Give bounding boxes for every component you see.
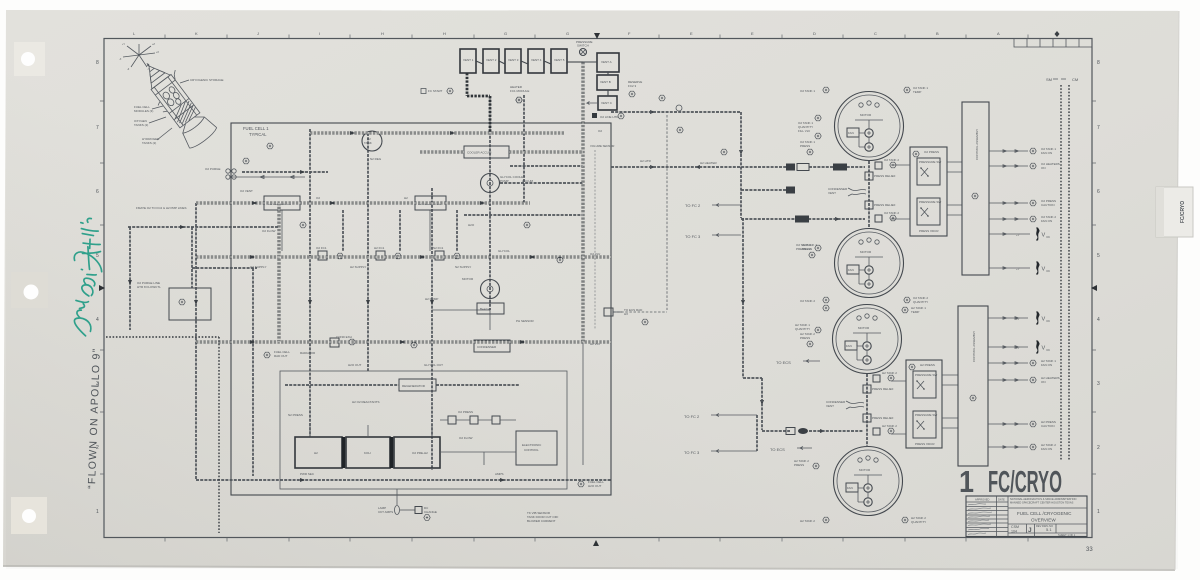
H2 tank 2 hex bottom left [800,517,829,523]
distribution pipe top y112 [611,111,741,113]
svg-text:FC/CRYO: FC/CRYO [988,464,1062,499]
valve row above power section [440,416,516,424]
hex glycol sensor [264,352,270,358]
svg-text:VENT: VENT [826,404,834,408]
hex pair near regen [330,338,355,347]
svg-text:6: 6 [96,189,99,195]
svg-text:ON: ON [1041,166,1046,170]
svg-text:104: 104 [1011,530,1017,534]
CSM label fuel cell modules [134,105,163,113]
title block signatures [968,504,992,535]
border tick marks [100,35,1096,542]
pipe left riser x130 [129,227,131,330]
hex mid module [516,97,522,103]
hex right of riser 2 [802,243,817,258]
inline filter dark y167 [833,164,847,171]
inline valve dark on y167 [786,164,795,171]
bottom legend lamp [378,506,437,521]
bottom TO ECS stub [770,447,812,453]
svg-text:6: 6 [1097,189,1100,195]
hole reinforcement patch middle [11,272,48,308]
pipe glycol vertical [489,98,491,310]
svg-text:MODULES (3): MODULES (3) [134,109,153,113]
bottom TO FC 2 stub [684,414,757,420]
svg-text:1: 1 [96,509,99,515]
valve circle on y112 [659,95,682,111]
svg-text:3: 3 [1097,381,1100,387]
pipe O2 vertical [431,188,433,470]
bottom riser x757 [756,415,758,451]
svg-text:O2: O2 [598,129,602,133]
svg-text:CONTROL ASSEMBLY: CONTROL ASSEMBLY [972,331,976,362]
svg-text:4: 4 [1097,317,1100,323]
control2 output row 2 V [988,341,1050,354]
svg-text:FAN ON: FAN ON [1041,447,1052,451]
svg-text:5: 5 [1097,253,1100,259]
svg-text:H2O OUT: H2O OUT [588,484,602,488]
zone labels left margin [96,60,99,515]
SM boundary dotted line [1060,85,1062,461]
svg-text:O2 FLOW: O2 FLOW [262,229,276,233]
svg-text:O2 TANK 1: O2 TANK 1 [800,89,815,93]
svg-text:CONTROL ASSEMBLY: CONTROL ASSEMBLY [975,129,979,160]
short link verticals regulator to mid row [343,210,457,251]
svg-text:TANKS (2): TANKS (2) [142,141,156,145]
svg-text:VENT A: VENT A [601,60,612,64]
svg-text:MOTOR: MOTOR [858,326,870,330]
svg-text:VENT C: VENT C [601,101,613,105]
CSM spacecraft drawing [133,52,219,150]
svg-text:PRESSURE SW: PRESSURE SW [919,160,941,164]
cooler accumulator box [464,146,509,158]
tank2 valve box + hex [875,158,899,169]
svg-text:O2: O2 [316,196,320,200]
svg-text:TO FC 3: TO FC 3 [684,450,700,455]
svg-text:+X: +X [156,51,159,54]
TO FC 3 stub upper [685,234,741,240]
pipe heavy vertical x583 [582,62,585,342]
H2 regulator box [415,196,446,210]
drawing border frame [104,39,1092,538]
svg-text:H2 PUMP: H2 PUMP [425,297,438,301]
H2 relief valve box 1 [863,385,871,393]
transducer2 wires to control [891,375,958,434]
svg-text:H: H [443,31,446,36]
svg-text:TYPICAL: TYPICAL [249,132,267,137]
svg-text:B: B [936,31,939,36]
svg-text:CAUTION: CAUTION [1041,203,1055,207]
svg-text:4: 4 [96,317,99,323]
pipe O2 supply top horizontal [310,132,565,135]
regenerator box [399,379,436,391]
svg-text:CAUTION: CAUTION [1041,424,1055,428]
svg-text:FAN: FAN [847,486,853,490]
O2 tank 1 hex top right [904,86,929,94]
control2 output row 5 [988,420,1056,428]
chain links [476,61,551,64]
H2 tank2 valve box + hex upper [873,371,897,382]
svg-text:FC1 MODULE: FC1 MODULE [510,89,529,93]
purge valve chain box 1 [460,49,476,73]
dotted SM boundary vertical [218,337,220,533]
svg-text:5: 5 [96,253,99,259]
zone letters top [133,31,1000,36]
svg-text:5.1: 5.1 [1046,527,1052,532]
svg-text:GLYCOL OUT: GLYCOL OUT [424,363,443,367]
H2 tank 1 hex right [902,306,926,314]
svg-text:VENT 1: VENT 1 [463,58,474,62]
TO FC 2 stub upper [685,203,741,208]
junction X valve [576,40,593,56]
H2 pump circle [462,277,500,299]
hex right of riser 3 [800,332,815,347]
svg-text:A: A [997,31,1000,36]
svg-text:2: 2 [1097,445,1100,451]
svg-text:MOTOR: MOTOR [859,468,871,472]
svg-text:O2 SUPPLY: O2 SUPPLY [250,265,266,269]
wire heavy vertical extension x583 [582,342,584,465]
svg-text:DATE: DATE [998,498,1005,502]
svg-text:TEMP: TEMP [911,310,919,314]
svg-text:PRESS: PRESS [800,336,810,340]
svg-text:C: C [874,31,877,36]
svg-text:TO FC 2: TO FC 2 [684,414,700,419]
svg-text:PRESS RELIEF: PRESS RELIEF [872,387,894,391]
distribution pipe y167 [611,166,790,168]
svg-text:QUANTITY: QUANTITY [913,300,928,304]
svg-text:H2 SUPPLY: H2 SUPPLY [350,265,366,269]
svg-text:O2 PRESS: O2 PRESS [924,150,939,154]
svg-text:REGENERATOR: REGENERATOR [402,384,426,388]
power plates H2 box [295,437,342,468]
svg-text:CSM: CSM [1011,525,1019,529]
pipe accum link y166 [510,165,583,167]
svg-text:CKT AMPS: CKT AMPS [378,510,393,514]
svg-text:D: D [813,31,816,36]
svg-text:FAN: FAN [848,268,854,272]
start legend left of chain [421,88,453,94]
valve box pair row3 [433,246,460,260]
control1 output row 1 [989,147,1056,155]
hex fc1 rad [642,319,648,325]
svg-text:I: I [319,31,320,36]
relief valve box 1 [865,172,873,180]
svg-text:H2: H2 [404,196,408,200]
power plates O2 box [394,437,440,468]
chain drop hatched [467,73,490,133]
svg-text:TO ECS: TO ECS [770,447,785,452]
hole reinforcement patch top [14,42,45,76]
control2 output row 3 [988,359,1056,367]
electronic control box [516,431,557,465]
control1 output row 5 V [989,228,1050,241]
svg-text:K: K [195,31,198,36]
H2 tank 1 [833,305,902,374]
vent to ecs rad label [604,308,643,316]
svg-text:⌐√: ⌐√ [1016,267,1020,271]
top centre marker [594,33,600,39]
svg-text:H2 HEATER: H2 HEATER [700,161,717,165]
punched hole top [21,52,35,66]
svg-text:SHEET 1 OF 1: SHEET 1 OF 1 [1058,533,1076,537]
right stack box 8 [598,96,617,110]
pipe reactant link y215 [464,214,583,216]
svg-text:N2 REG: N2 REG [370,157,382,161]
control2 output row 4 [988,376,1060,384]
O2 tank 2 [835,229,904,298]
svg-text:TO FC 3: TO FC 3 [685,234,701,239]
svg-text:PRESS RELIEF: PRESS RELIEF [872,416,894,420]
svg-text:O2 TANK 2: O2 TANK 2 [884,211,899,215]
svg-text:VENT: VENT [828,191,836,195]
bottom TO FC 3 stub [684,450,757,456]
svg-text:FUEL CELL /CRYOGENIC: FUEL CELL /CRYOGENIC [1017,511,1072,516]
H2 tank2 valve box + hex lower [873,424,897,435]
small dark box + hex right of stack [592,113,624,119]
bottom centre marker [593,540,599,546]
svg-text:N2 SUPPLY: N2 SUPPLY [455,265,471,269]
regulator drop wires [282,210,430,251]
control assembly 2 [958,306,988,466]
svg-text:GLYCOL: GLYCOL [498,249,510,253]
tank2 lower valve box + hex [875,211,899,222]
volume sensor dashed vertical [590,144,614,330]
distribution riser x741 top [740,112,742,218]
valve box pair row1 [316,246,343,260]
wire condenser link [432,310,490,330]
svg-text:FAN: FAN [848,131,854,135]
pipe htr vertical x192 [191,227,193,288]
diamond marker top [1055,31,1060,37]
condenser vent squiggle [848,188,866,196]
svg-text:E: E [690,31,693,36]
svg-text:O2 TANK 2: O2 TANK 2 [800,299,815,303]
pipe center rails overlay [196,62,611,342]
pipe y219 to tanks [741,218,865,220]
svg-text:SWITCH: SWITCH [577,44,589,48]
extra hexes interior [300,222,306,228]
CM boundary dotted line [1068,85,1070,461]
svg-text:N2 FC1: N2 FC1 [433,246,444,250]
paper bottom shadow [3,566,1175,570]
svg-text:O2 PRE-H2: O2 PRE-H2 [412,451,428,455]
H2 tank 1 hex top left [823,305,829,311]
power plate separators [344,437,392,468]
pipe left loop vertical x196 [195,203,197,480]
pipe reactant vertical [523,95,525,203]
svg-text:AMPS: AMPS [495,472,504,476]
svg-text:8: 8 [96,60,99,66]
svg-text:PH SENSOR: PH SENSOR [516,319,535,323]
purge valve chain box 2 [483,49,499,73]
svg-text:PRESS LO: PRESS LO [796,247,812,251]
inline box on y167 [797,164,809,171]
svg-text:PRESSURE SW: PRESSURE SW [915,373,937,377]
hex FC module upper2 [243,158,249,164]
pipe H2 vertical [367,133,369,371]
svg-text:COOLER ACCUM: COOLER ACCUM [467,151,492,155]
svg-text:H2 VLV: H2 VLV [590,342,600,346]
svg-text:VENT 4: VENT 4 [531,58,542,62]
H2 tank 2 [834,447,903,516]
H2 relief valve box 2 [863,414,871,422]
transducer1 wires to control [891,162,962,219]
O2 tank 2 hex bottom left [800,297,829,303]
svg-text:H2 PRESS: H2 PRESS [920,363,935,367]
chain box labels [463,58,565,62]
purge valve chain box 5 [551,49,567,73]
hex above y167 [721,149,727,155]
svg-text:O2 FC1: O2 FC1 [316,246,327,250]
inline valve dark on y190 [786,187,795,194]
pipe left htr horizontal y268 [192,267,257,269]
svg-text:OVERVIEW: OVERVIEW [1031,518,1056,523]
svg-text:O2 VLV: O2 VLV [590,252,600,256]
svg-text:PRESS XDCR: PRESS XDCR [919,229,939,233]
svg-text:NATIONAL AERONAUTICS & SPACE A: NATIONAL AERONAUTICS & SPACE ADMINISTRAT… [1010,497,1076,501]
svg-text:TANK: TANK [364,141,372,145]
hex heater ctl [516,97,522,103]
inline valve box y431 [786,428,795,435]
revision block top right [1014,39,1092,48]
svg-text:FUEL CELL 1: FUEL CELL 1 [243,126,269,131]
pipe cooler feed y152 [420,151,583,154]
FC/CRYO index tab on right edge [1156,187,1193,237]
pressure transducer assembly 1 [910,147,947,236]
control1 output row 3 [989,199,1056,207]
svg-text:HX: HX [624,312,628,316]
svg-text:MOTOR: MOTOR [462,277,474,281]
svg-text:PRESS: PRESS [794,463,804,467]
svg-text:PRESSURE SW: PRESSURE SW [919,200,941,204]
svg-text:ELECTRONIC: ELECTRONIC [522,443,542,447]
ecs elbow [743,378,762,430]
power section boundary [280,371,567,489]
stack left arrow [587,102,598,105]
control1 output row 4 [989,215,1056,223]
chain to junction wire [567,61,583,63]
svg-text:Bearing: Bearing [480,307,491,311]
svg-text:CONTROL: CONTROL [524,448,539,452]
control2 output row 1 V [988,312,1050,325]
svg-text:COND EXH: COND EXH [336,335,352,339]
svg-text:TEMP: TEMP [913,90,921,94]
svg-text:PRESSURE SW: PRESSURE SW [915,413,937,417]
pressure transducer assembly 2 [906,360,942,448]
svg-text:HTR 8 FLOWCTL: HTR 8 FLOWCTL [137,285,161,289]
hex bottom fc [578,481,584,487]
svg-text:⌐√: ⌐√ [1016,233,1020,237]
svg-text:TANKS (2): TANKS (2) [134,123,148,127]
N2 tank circle [362,131,382,151]
pipe mid row horizontal y257 [196,256,611,259]
svg-text:O2 VENT: O2 VENT [240,189,253,193]
pipe fmate into module [254,226,279,228]
punched hole bottom [22,509,36,523]
svg-text:8: 8 [1097,60,1100,66]
svg-text:APPROVED: APPROVED [975,498,990,502]
wire plates to control [440,452,516,465]
svg-text:FAN ON: FAN ON [1041,151,1052,155]
svg-text:PRESS XDCR: PRESS XDCR [915,442,935,446]
pipe inner left vertical x253 [252,268,254,476]
svg-text:H2 TANK 2: H2 TANK 2 [800,519,815,523]
svg-text:E: E [751,31,754,36]
svg-text:RAD OUT: RAD OUT [274,354,288,358]
right centre marker [1091,285,1097,291]
svg-text:7: 7 [96,125,99,131]
hex FC module upper1 [267,143,273,149]
svg-text:CHANGE: CHANGE [424,510,437,514]
condenser box [474,340,510,352]
svg-text:VENT B: VENT B [600,80,611,84]
svg-text:RADIATOR: RADIATOR [300,351,316,355]
O2 interconnect pipe vertical [868,161,870,228]
wire plate feeds [310,425,432,437]
svg-text:FILL VLV: FILL VLV [798,129,810,133]
svg-text:33: 33 [1086,547,1093,553]
O2 tank 1 hex top left [800,87,829,93]
svg-text:VENT 3: VENT 3 [508,58,519,62]
scattered component labels [250,129,652,417]
TO ECS upper stub [776,360,820,366]
svg-text:G: G [566,31,569,36]
pipe pump out y183 [500,182,583,184]
O2 tank 1 [835,92,904,161]
svg-text:PRESS RELIEF: PRESS RELIEF [874,174,896,178]
svg-text:⌐√: ⌐√ [1016,346,1020,350]
H2 tank 2 hex bottom right [902,516,926,524]
right stack box 7 [597,75,618,90]
svg-text:PWR SEC: PWR SEC [300,472,315,476]
svg-text:-X: -X [119,58,122,61]
svg-text:VENT 5: VENT 5 [554,58,565,62]
power plates mid box [346,437,390,468]
zone labels right margin [1097,60,1100,515]
svg-text:FMATE O2 TO FC2 & H2 PMP LINES: FMATE O2 TO FC2 & H2 PMP LINES [136,206,186,210]
svg-text:+Y: +Y [122,43,125,46]
svg-text:H2 HTR: H2 HTR [640,159,652,163]
svg-text:G: G [504,31,507,36]
svg-text:CONDENSER: CONDENSER [477,345,497,349]
svg-text:7: 7 [1097,125,1100,131]
dotted SM boundary horizontal [106,336,219,338]
O2 tank 2 left hexes [796,243,821,251]
stack links [583,62,608,96]
svg-text:1: 1 [1097,509,1100,515]
svg-text:ACCUM: ACCUM [522,179,534,183]
svg-text:KOH: KOH [364,451,371,455]
pipe regulator row horizontal y203 [196,202,530,205]
border tick marks top [0,0,1,1]
svg-text:TO ECS: TO ECS [776,360,791,365]
svg-text:FC START: FC START [428,89,443,93]
distribution pipe y190 branch [741,189,790,191]
right stack box 6 [597,53,619,72]
svg-text:SM: SM [1046,77,1052,82]
pipe y167 to tanks [809,166,865,168]
stack labels [600,60,613,105]
flow arrows on pipes [128,110,840,482]
svg-text:J: J [1028,527,1032,534]
O2 tank 1 left hexes [798,115,821,139]
pipe purge horizontal y172 [242,171,328,173]
svg-text:BLOWER CURRENT: BLOWER CURRENT [527,519,556,523]
svg-text:O2 TANK 2: O2 TANK 2 [884,158,899,162]
svg-text:H2: H2 [314,451,318,455]
inline dark oval y431 [798,428,808,434]
bearing box [477,303,504,314]
